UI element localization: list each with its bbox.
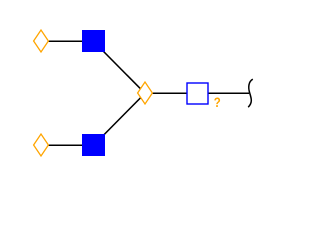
reducing-end squiggle — [248, 79, 253, 107]
wire: diamond A to square B — [41, 40, 94, 42]
residue F: blue outlined square — [187, 83, 208, 104]
wire: diamond D to square E — [41, 144, 94, 146]
residue B: blue filled square (top) — [82, 30, 105, 52]
wire: square B to central diamond C — [94, 41, 146, 93]
wire: central diamond C to outlined square F — [145, 92, 198, 94]
wire: square E to central diamond C — [94, 93, 146, 145]
wire: outlined square F to reducing end — [198, 92, 250, 94]
residue E: blue filled square (bottom) — [82, 134, 105, 156]
residue A: orange open diamond (top-left) — [34, 30, 49, 52]
residue C: orange open diamond (center) — [138, 82, 153, 104]
svg-text:?: ? — [214, 95, 221, 110]
residue D: orange open diamond (bottom-left) — [34, 134, 49, 156]
